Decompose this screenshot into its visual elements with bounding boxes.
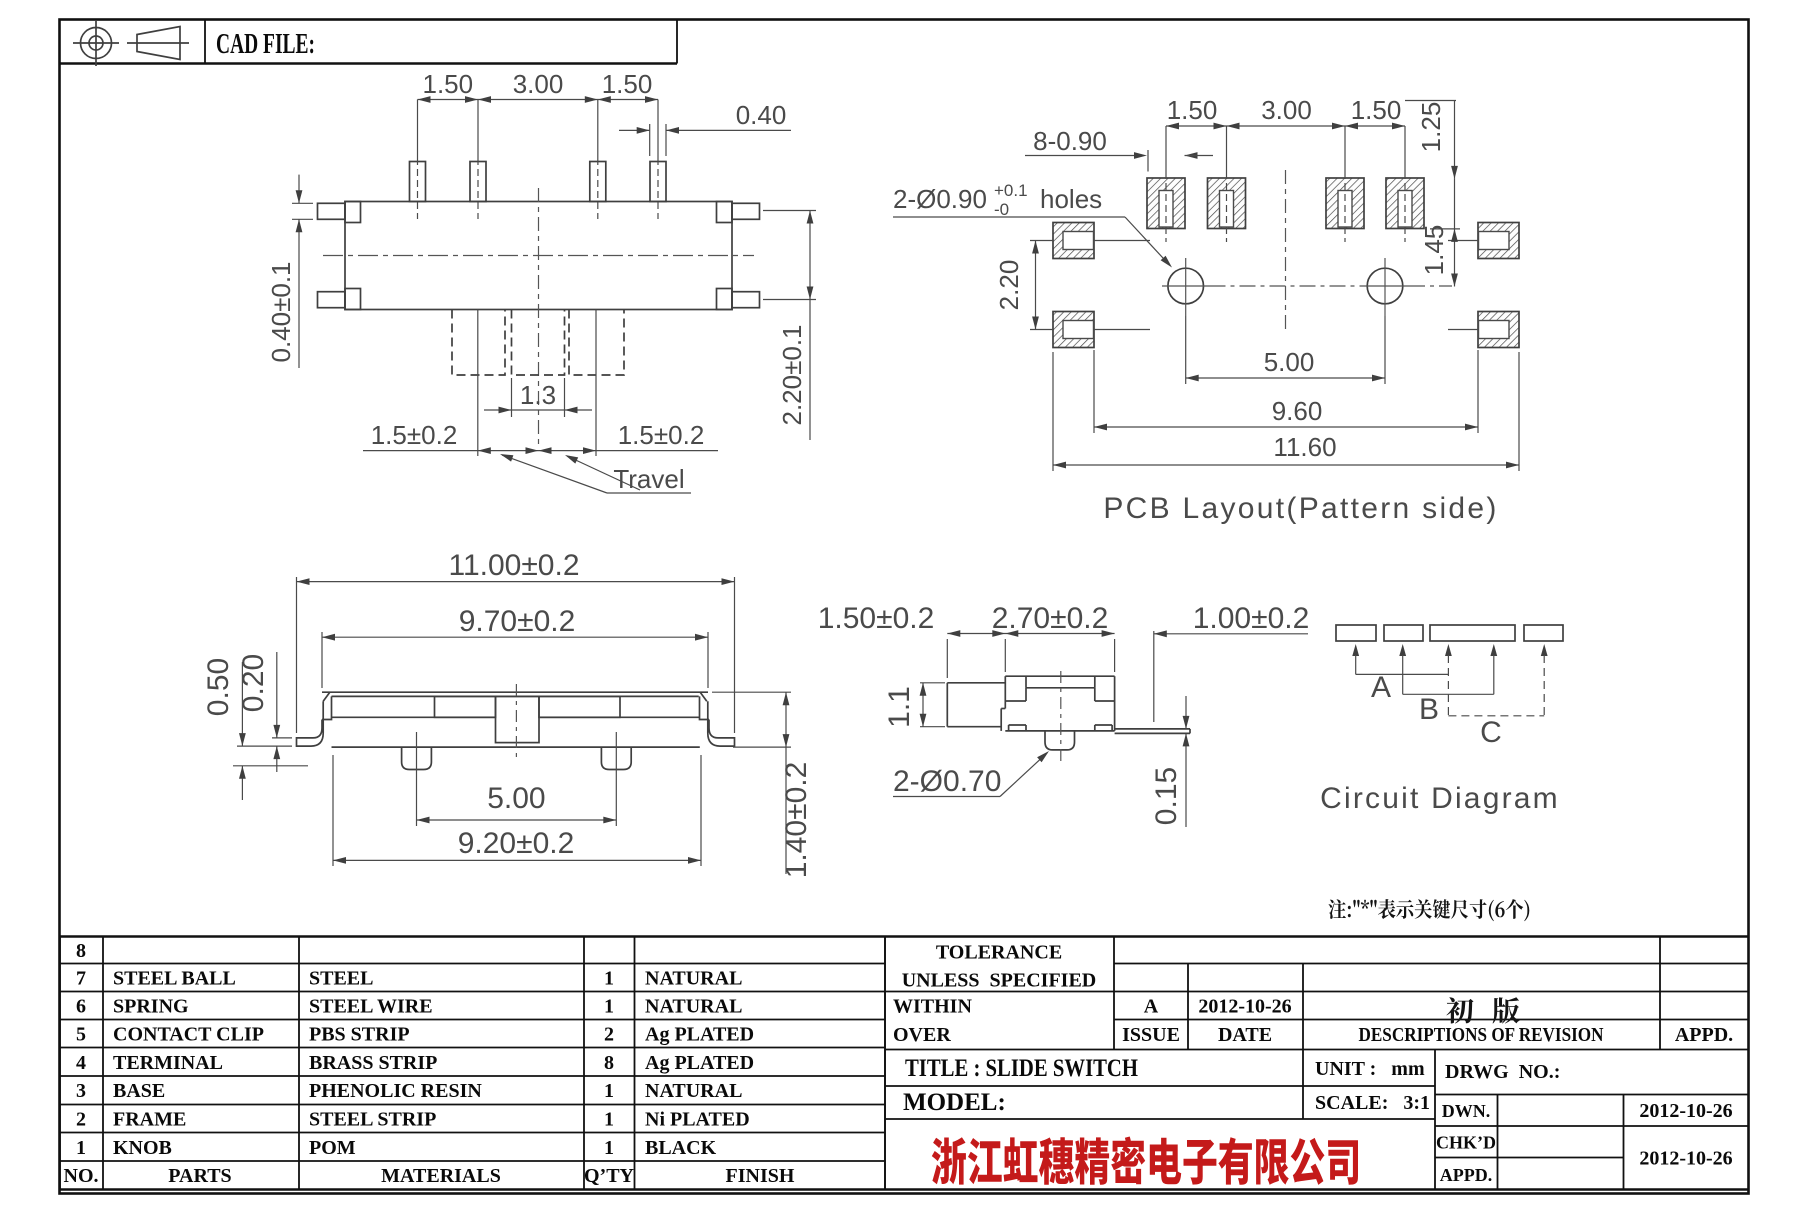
svg-text:1: 1: [604, 1109, 614, 1131]
svg-text:9.60: 9.60: [1272, 396, 1323, 426]
circuit: wire bracket A (pole 1 to common): [1355, 655, 1357, 674]
svg-text:OVER: OVER: [893, 1024, 951, 1046]
svg-text:C: C: [1480, 716, 1502, 749]
front view: knob (center): [496, 696, 540, 742]
circuit: wire bracket B: [1402, 655, 1404, 694]
dimension 1.40±0.2 (right height): [712, 691, 791, 693]
svg-text:1: 1: [604, 996, 614, 1018]
svg-text:CAD FILE:: CAD FILE:: [216, 28, 315, 60]
svg-text:CONTACT CLIP: CONTACT CLIP: [113, 1024, 264, 1046]
svg-text:1: 1: [76, 1137, 86, 1159]
top view: side terminal tabs (4): [318, 203, 346, 219]
company name (Chinese, red): [932, 1137, 1358, 1185]
PCB layout: top pads (4, hatched): [1147, 178, 1185, 229]
svg-text:1.45: 1.45: [1419, 225, 1449, 276]
svg-text:BRASS STRIP: BRASS STRIP: [309, 1052, 437, 1074]
svg-text:2.70±0.2: 2.70±0.2: [992, 602, 1109, 635]
svg-text:1.50: 1.50: [1167, 95, 1218, 125]
svg-text:UNLESS SPECIFIED: UNLESS SPECIFIED: [902, 970, 1097, 992]
svg-text:STEEL: STEEL: [309, 968, 373, 990]
PCB layout: side pads (4, hatched): [1053, 223, 1094, 259]
svg-text:3.00: 3.00: [513, 69, 564, 99]
svg-text:Travel: Travel: [613, 464, 684, 494]
dimension 0.15 (lead thickness): [1185, 696, 1187, 729]
svg-text:5: 5: [76, 1024, 86, 1046]
svg-text:TITLE : SLIDE SWITCH: TITLE : SLIDE SWITCH: [905, 1055, 1138, 1082]
svg-text:0.40±0.1: 0.40±0.1: [266, 261, 296, 362]
PCB layout: mounting holes (2 circles): [1168, 268, 1204, 304]
side view: solder bump: [1045, 731, 1075, 750]
svg-text:0.40: 0.40: [736, 100, 787, 130]
dimension 0.50 (left): [237, 745, 292, 747]
svg-text:1.40±0.2: 1.40±0.2: [780, 762, 813, 879]
side view: flat terminal lead (right): [1115, 728, 1190, 730]
svg-text:DATE: DATE: [1218, 1024, 1272, 1046]
svg-text:9.20±0.2: 9.20±0.2: [458, 827, 575, 860]
svg-text:+0.1: +0.1: [994, 181, 1028, 200]
svg-text:2012-10-26: 2012-10-26: [1639, 1100, 1732, 1122]
svg-text:CHK’D: CHK’D: [1436, 1133, 1496, 1153]
svg-text:ISSUE: ISSUE: [1122, 1024, 1180, 1046]
PCB layout: pad slots (white): [1159, 191, 1173, 228]
svg-text:1.00±0.2: 1.00±0.2: [1193, 602, 1310, 635]
svg-text:MATERIALS: MATERIALS: [381, 1165, 501, 1187]
side view: bottom terminal blocks: [1009, 724, 1026, 726]
svg-text:BLACK: BLACK: [645, 1137, 717, 1159]
svg-text:2: 2: [76, 1109, 86, 1131]
svg-text:1.5±0.2: 1.5±0.2: [371, 420, 458, 450]
PCB layout: hole centermarks and axis: [1185, 258, 1187, 316]
circuit: wire bracket C (dashed): [1447, 655, 1449, 716]
svg-text:WITHIN: WITHIN: [893, 996, 972, 1018]
front view: frame top plate: [322, 691, 708, 693]
dimension 0.20 (left): [272, 737, 292, 739]
svg-text:1.3: 1.3: [520, 380, 556, 410]
svg-text:STEEL WIRE: STEEL WIRE: [309, 996, 433, 1018]
side view: body outline: [1005, 675, 1114, 677]
svg-text:8: 8: [604, 1052, 614, 1074]
top view: horizontal centerline: [323, 255, 754, 257]
PCB layout: side pad slot centerlines: [1094, 240, 1150, 242]
PCB layout: pad centerlines: [1165, 126, 1167, 172]
svg-text:2-Ø0.90: 2-Ø0.90: [893, 184, 987, 214]
svg-text:TOLERANCE: TOLERANCE: [936, 942, 1062, 964]
svg-text:11.00±0.2: 11.00±0.2: [448, 549, 579, 582]
top view: hidden bottom terminals (3 dashed): [452, 310, 505, 376]
front view: solder bumps (2): [402, 747, 432, 769]
dimension 1.45 (pad to hole axis): [1454, 179, 1456, 287]
dimension 1.50 / 3.00 / 1.50 (pad pitch): [1166, 125, 1405, 127]
circuit diagram: terminal pads (4): [1336, 625, 1376, 641]
dimension 2.20 (side pad pitch): [1030, 240, 1053, 242]
svg-text:6: 6: [76, 996, 86, 1018]
svg-text:NATURAL: NATURAL: [645, 968, 742, 990]
svg-text:STEEL BALL: STEEL BALL: [113, 968, 236, 990]
svg-text:2.20: 2.20: [994, 260, 1024, 311]
svg-text:KNOB: KNOB: [113, 1137, 172, 1159]
svg-text:NO.: NO.: [64, 1165, 99, 1187]
svg-text:1.25: 1.25: [1416, 102, 1446, 153]
svg-text:0.20: 0.20: [237, 654, 270, 712]
svg-text:PHENOLIC RESIN: PHENOLIC RESIN: [309, 1080, 482, 1102]
title strip divider lines: [60, 62, 678, 65]
top view: vertical centerline: [538, 188, 540, 448]
title block grid: [885, 937, 1749, 1190]
dimension 1.1 (knob height): [920, 682, 945, 684]
svg-text:5.00: 5.00: [1264, 347, 1315, 377]
dimension 11.60: [1052, 352, 1054, 471]
svg-text:NATURAL: NATURAL: [645, 1080, 742, 1102]
side view: knob profile (left): [947, 682, 1005, 684]
svg-text:1: 1: [604, 968, 614, 990]
svg-text:8-0.90: 8-0.90: [1033, 126, 1107, 156]
svg-text:FINISH: FINISH: [726, 1165, 795, 1187]
svg-text:1.5±0.2: 1.5±0.2: [618, 420, 705, 450]
svg-text:POM: POM: [309, 1137, 356, 1159]
dimension 1.5±0.2 left travel: [363, 450, 718, 452]
svg-text:1.1: 1.1: [883, 686, 916, 728]
svg-text:2: 2: [604, 1024, 614, 1046]
dimension 9.20±0.2: [332, 755, 334, 866]
svg-text:1.50±0.2: 1.50±0.2: [818, 602, 935, 635]
dimension 9.70±0.2 (frame width): [321, 632, 323, 688]
dimension 5.00 (bump pitch): [416, 778, 418, 826]
svg-text:1: 1: [604, 1080, 614, 1102]
svg-text:Ag PLATED: Ag PLATED: [645, 1052, 754, 1074]
svg-text:A: A: [1144, 996, 1159, 1018]
svg-text:2.20±0.1: 2.20±0.1: [777, 324, 807, 425]
svg-text:PCB Layout(Pattern side): PCB Layout(Pattern side): [1103, 492, 1498, 525]
front view: left terminal leg with foot: [297, 701, 324, 746]
top view: top terminal pins (4): [410, 162, 426, 202]
svg-text:3.00: 3.00: [1261, 95, 1312, 125]
revision description (Chinese: first edition): [1446, 997, 1519, 1023]
parts list table grid: [60, 937, 885, 1190]
svg-text:FRAME: FRAME: [113, 1109, 186, 1131]
dimension 0.40±0.1 (tab thickness, left): [292, 202, 313, 204]
side view dimension line 1.50±0.2 / 2.70±0.2 / 1.00±0.2: [946, 639, 948, 678]
PCB layout: side pad slots: [1063, 232, 1094, 250]
top view: travel extension lines: [477, 310, 479, 457]
svg-text:UNIT : mm: UNIT : mm: [1315, 1058, 1425, 1080]
svg-text:APPD.: APPD.: [1675, 1024, 1733, 1046]
svg-text:0.50: 0.50: [202, 658, 235, 716]
svg-text:PBS STRIP: PBS STRIP: [309, 1024, 410, 1046]
svg-text:-0: -0: [994, 200, 1009, 219]
svg-text:MODEL:: MODEL:: [903, 1089, 1006, 1116]
svg-text:BASE: BASE: [113, 1080, 165, 1102]
svg-text:2012-10-26: 2012-10-26: [1639, 1148, 1732, 1170]
PCB layout: vertical centerline: [1285, 170, 1287, 332]
svg-text:SCALE: 3:1: SCALE: 3:1: [1315, 1092, 1430, 1114]
side view: top tabs and ledges: [1025, 676, 1027, 688]
circuit diagram: contact arrows: [1352, 644, 1359, 656]
svg-text:11.60: 11.60: [1273, 432, 1336, 462]
svg-text:SPRING: SPRING: [113, 996, 189, 1018]
dimension 0.40 (pin width): [619, 129, 650, 131]
first-angle projection symbol: circle with crosshair: [73, 20, 119, 66]
svg-text:PARTS: PARTS: [168, 1165, 231, 1187]
dimension 1.3 (center terminal width): [511, 378, 513, 417]
svg-text:Q’TY: Q’TY: [584, 1165, 635, 1187]
svg-text:1.50: 1.50: [1351, 95, 1402, 125]
svg-text:holes: holes: [1040, 184, 1102, 214]
dimension 1.25 (pad height): [1405, 100, 1456, 102]
svg-text:TERMINAL: TERMINAL: [113, 1052, 223, 1074]
dimension 2.20±0.1 (tab span, right): [763, 210, 816, 212]
dimension 9.60: [1093, 350, 1095, 433]
svg-text:NATURAL: NATURAL: [645, 996, 742, 1018]
svg-text:APPD.: APPD.: [1440, 1165, 1493, 1185]
top view: switch body outline: [345, 202, 732, 310]
svg-text:2012-10-26: 2012-10-26: [1198, 996, 1291, 1018]
svg-text:4: 4: [76, 1052, 86, 1074]
svg-text:DESCRIPTIONS OF REVISION: DESCRIPTIONS OF REVISION: [1359, 1024, 1604, 1046]
svg-text:0.15: 0.15: [1150, 767, 1183, 825]
svg-text:Ni PLATED: Ni PLATED: [645, 1109, 750, 1131]
svg-text:1.50: 1.50: [422, 69, 473, 99]
svg-text:8: 8: [76, 940, 86, 962]
dimension 11.00±0.2 (overall width): [296, 577, 298, 733]
dimension 5.00 (hole pitch): [1185, 316, 1187, 384]
svg-text:1: 1: [604, 1137, 614, 1159]
svg-text:A: A: [1371, 671, 1391, 704]
svg-text:STEEL STRIP: STEEL STRIP: [309, 1109, 436, 1131]
parts list text: [64, 940, 795, 1187]
note: key-dimension remark (Chinese): [1329, 899, 1530, 921]
svg-text:DRWG NO.:: DRWG NO.:: [1445, 1061, 1560, 1083]
svg-text:Circuit Diagram: Circuit Diagram: [1320, 782, 1560, 815]
svg-text:7: 7: [76, 968, 86, 990]
top view: pin centerlines: [417, 100, 419, 159]
svg-text:DWN.: DWN.: [1442, 1101, 1491, 1121]
front view: base bottom line and inner ledge: [332, 746, 700, 748]
projection symbol: truncated cone side view: [127, 27, 189, 60]
svg-text:1.50: 1.50: [602, 69, 653, 99]
svg-text:3: 3: [76, 1080, 86, 1102]
front view: contact shoulders: [435, 696, 496, 717]
dimension 1.50 / 3.00 / 1.50 (top pins pitch): [418, 99, 659, 101]
svg-text:2-Ø0.70: 2-Ø0.70: [893, 765, 1001, 798]
top view: corner contact squares: [345, 202, 361, 223]
svg-text:Ag PLATED: Ag PLATED: [645, 1024, 754, 1046]
svg-text:9.70±0.2: 9.70±0.2: [459, 605, 576, 638]
front view: right terminal leg with foot: [708, 701, 735, 746]
svg-text:B: B: [1419, 693, 1439, 726]
svg-text:5.00: 5.00: [487, 782, 545, 815]
